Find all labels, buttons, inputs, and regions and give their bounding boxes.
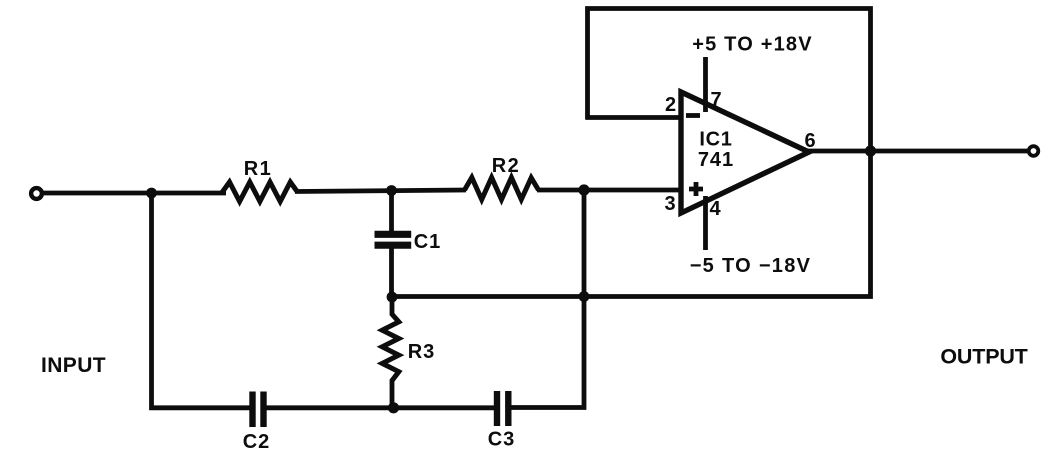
svg-text:IC1: IC1 xyxy=(699,129,732,151)
svg-text:R2: R2 xyxy=(492,155,521,177)
svg-text:C2: C2 xyxy=(243,431,271,453)
svg-text:INPUT: INPUT xyxy=(41,354,106,377)
svg-text:OUTPUT: OUTPUT xyxy=(940,345,1027,369)
svg-text:7: 7 xyxy=(710,89,721,111)
svg-text:−5 TO −18V: −5 TO −18V xyxy=(690,255,812,277)
svg-text:R1: R1 xyxy=(244,158,273,180)
svg-text:6: 6 xyxy=(804,130,815,152)
svg-text:3: 3 xyxy=(664,193,675,215)
svg-text:C1: C1 xyxy=(414,231,442,253)
svg-text:R3: R3 xyxy=(408,341,436,363)
svg-text:+5 TO +18V: +5 TO +18V xyxy=(692,34,813,56)
svg-text:C3: C3 xyxy=(488,429,516,451)
svg-text:4: 4 xyxy=(709,198,721,220)
svg-text:741: 741 xyxy=(698,149,734,171)
svg-text:2: 2 xyxy=(665,94,676,116)
